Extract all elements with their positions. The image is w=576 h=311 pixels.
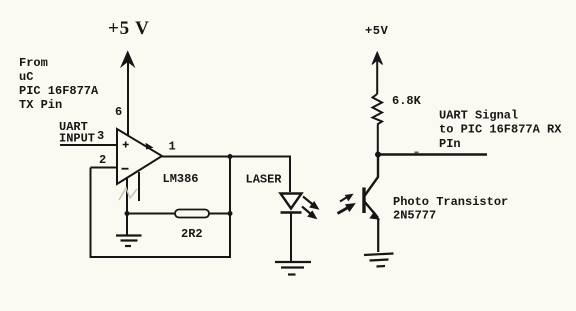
svg-text:LASER: LASER bbox=[246, 173, 283, 187]
svg-text:From: From bbox=[19, 56, 48, 70]
light arrows into phototransistor bbox=[338, 194, 356, 214]
op-amp U1 LM386 bbox=[117, 129, 162, 184]
svg-text:to PIC 16F877A RX: to PIC 16F877A RX bbox=[439, 123, 562, 137]
+5V arrow (right) bbox=[372, 52, 383, 65]
svg-text:+5 V: +5 V bbox=[108, 18, 150, 39]
laser light arrows bbox=[302, 197, 319, 219]
svg-text:+5V: +5V bbox=[365, 24, 389, 38]
speck on wire bbox=[415, 152, 419, 154]
svg-text:TX Pin: TX Pin bbox=[19, 98, 62, 112]
laser diode D1 bbox=[281, 194, 302, 213]
svg-text:3: 3 bbox=[97, 129, 104, 143]
op-amp ground wire bbox=[126, 178, 128, 236]
output wire pin 1 to laser bbox=[162, 157, 290, 193]
wire resistor right bbox=[208, 213, 230, 215]
unconnected op-amp stub pin bbox=[138, 172, 140, 201]
svg-text:uC: uC bbox=[19, 70, 33, 84]
resistor R2 6.8K zigzag bbox=[373, 94, 383, 125]
pencil scribble bbox=[119, 188, 137, 200]
svg-text:2: 2 bbox=[99, 153, 106, 167]
ground (laser) bbox=[275, 262, 311, 275]
wire emitter to ground bbox=[377, 219, 379, 252]
svg-text:PIC 16F877A: PIC 16F877A bbox=[19, 84, 99, 98]
junction resistor-ground node bbox=[125, 211, 130, 216]
wire pin 3 input bbox=[60, 144, 117, 146]
wire laser to ground bbox=[290, 213, 292, 262]
wire resistor left bbox=[127, 213, 176, 215]
ground (phototransistor) bbox=[364, 254, 394, 267]
ground (op-amp) bbox=[116, 236, 142, 247]
svg-text:1: 1 bbox=[169, 140, 176, 154]
phototransistor Q1 bbox=[364, 155, 380, 220]
+5V arrow (left) bbox=[121, 52, 134, 67]
svg-text:2R2: 2R2 bbox=[181, 227, 203, 241]
resistor R1 2R2 bbox=[175, 210, 209, 218]
wire +5V to resistor bbox=[376, 58, 378, 94]
wire resistor to collector node bbox=[377, 125, 379, 156]
wire UART signal out bbox=[378, 153, 487, 155]
wire +5V to op-amp pin 6 bbox=[127, 60, 129, 135]
feedback wire left vertical bbox=[91, 157, 231, 258]
svg-text:PIn: PIn bbox=[439, 137, 461, 151]
svg-text:6: 6 bbox=[115, 105, 122, 119]
svg-text:LM386: LM386 bbox=[163, 172, 199, 186]
svg-text:Photo Transistor: Photo Transistor bbox=[393, 195, 508, 209]
svg-text:6.8K: 6.8K bbox=[392, 94, 422, 108]
svg-text:2N5777: 2N5777 bbox=[393, 209, 436, 223]
junction resistor-feedback node bbox=[228, 211, 233, 216]
svg-text:UART Signal: UART Signal bbox=[439, 109, 518, 123]
wire pin 2 input bbox=[91, 167, 118, 169]
junction output node bbox=[228, 154, 233, 159]
junction collector node bbox=[375, 152, 381, 158]
svg-text:INPUT: INPUT bbox=[59, 132, 95, 146]
